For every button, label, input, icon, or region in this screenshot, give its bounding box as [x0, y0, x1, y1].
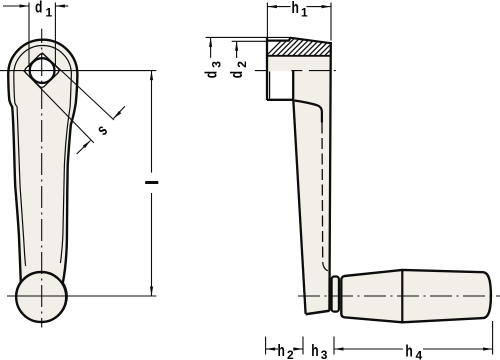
svg-text:2: 2 — [235, 61, 249, 68]
svg-text:3: 3 — [210, 61, 224, 68]
svg-text:4: 4 — [415, 349, 422, 360]
svg-text:d: d — [203, 71, 221, 78]
svg-text:s: s — [94, 122, 112, 140]
svg-text:h: h — [405, 343, 412, 360]
svg-text:d: d — [35, 0, 42, 17]
svg-text:h: h — [311, 342, 318, 360]
svg-text:h: h — [292, 0, 299, 18]
svg-text:2: 2 — [287, 348, 294, 360]
svg-text:1: 1 — [46, 6, 53, 20]
svg-text:d: d — [228, 71, 246, 78]
svg-text:h: h — [278, 342, 285, 360]
svg-text:1: 1 — [301, 6, 308, 20]
svg-text:3: 3 — [321, 348, 328, 360]
